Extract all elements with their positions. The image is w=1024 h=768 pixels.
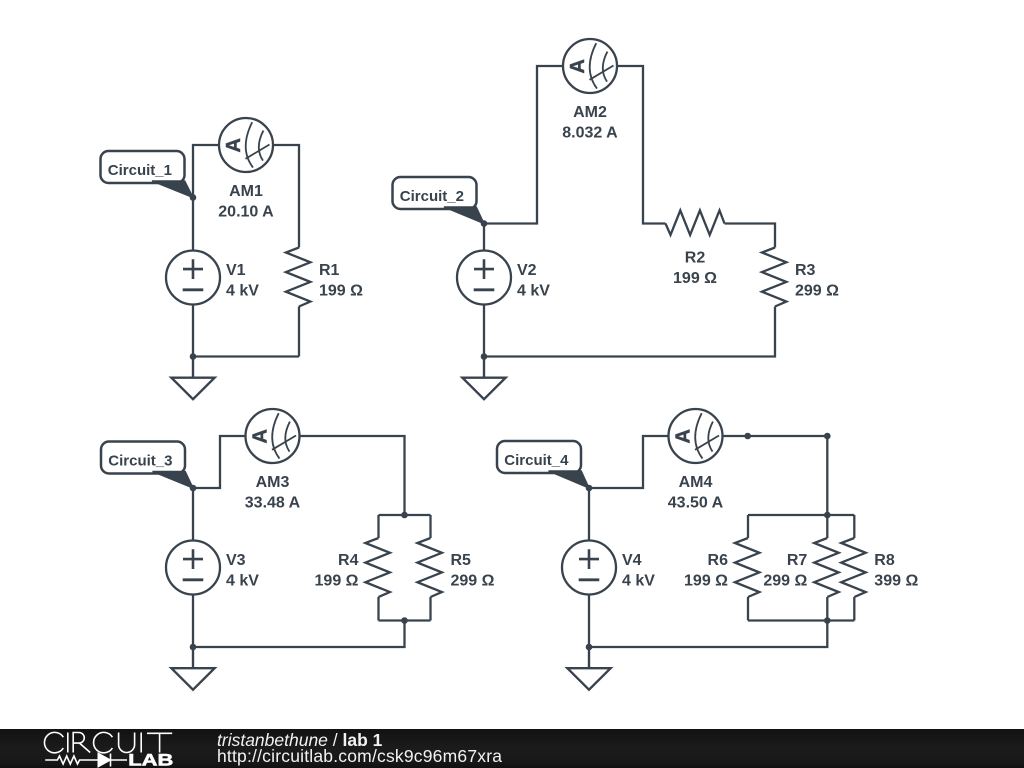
svg-text:199 Ω: 199 Ω xyxy=(684,573,728,590)
voltage source V4 xyxy=(562,541,616,595)
ammeter AM1 xyxy=(219,118,273,172)
node dot circuit 1 flag anchor xyxy=(190,194,197,201)
resistor R1 xyxy=(286,248,311,307)
svg-text:V1: V1 xyxy=(226,262,246,279)
letter T xyxy=(147,733,172,752)
flag Circuit_2 xyxy=(393,177,485,224)
footer url xyxy=(217,748,502,764)
wire R2 to R3 xyxy=(725,224,776,248)
svg-text:R1: R1 xyxy=(319,262,340,279)
ground circuit 4 xyxy=(567,647,610,690)
wire R6 leads xyxy=(747,515,749,621)
ammeter AM2 xyxy=(563,39,617,93)
letter C xyxy=(44,732,63,752)
resistor R6 xyxy=(735,538,760,597)
voltage source V2 xyxy=(457,251,511,305)
wire bottom bus of circuit 2 xyxy=(484,307,775,357)
flag Circuit_1 xyxy=(101,151,194,198)
letter U xyxy=(119,733,135,753)
resistor R2 xyxy=(666,210,725,235)
resistor R3 xyxy=(762,248,787,307)
svg-text:33.48 A: 33.48 A xyxy=(245,495,301,512)
ground circuit 3 xyxy=(171,647,214,690)
ammeter AM3 xyxy=(246,409,300,463)
svg-text:20.10 A: 20.10 A xyxy=(218,204,274,221)
node dot circuit 1 bottom junction xyxy=(190,353,197,360)
wire V2 top lead xyxy=(483,224,485,251)
svg-text:V2: V2 xyxy=(517,262,537,279)
wire V3 top lead xyxy=(192,488,194,541)
wire bottom run of circuit 4 xyxy=(589,621,827,648)
svg-text:R6: R6 xyxy=(708,552,729,569)
svg-text:AM2: AM2 xyxy=(573,104,607,121)
svg-text:Circuit_1: Circuit_1 xyxy=(108,162,172,179)
svg-text:R5: R5 xyxy=(451,552,472,569)
node dot circuit 2 flag anchor xyxy=(481,220,488,227)
svg-text:4 kV: 4 kV xyxy=(226,283,259,300)
svg-text:R7: R7 xyxy=(787,552,808,569)
svg-text:Circuit_4: Circuit_4 xyxy=(504,452,569,469)
svg-text:43.50 A: 43.50 A xyxy=(668,495,724,512)
svg-text:299 Ω: 299 Ω xyxy=(451,573,495,590)
wire V4 top lead xyxy=(588,488,590,541)
svg-text:399 Ω: 399 Ω xyxy=(874,573,918,590)
svg-text:AM3: AM3 xyxy=(256,474,290,491)
resistor R5 xyxy=(417,538,442,597)
flag Circuit_4 xyxy=(497,441,589,488)
wire R4 leads xyxy=(377,515,379,621)
node dot circuit 3 top parallel junction xyxy=(401,512,408,519)
svg-text:V4: V4 xyxy=(622,552,642,569)
ammeter AM4 xyxy=(669,409,723,463)
svg-text:R8: R8 xyxy=(874,552,895,569)
ground circuit 1 xyxy=(171,357,214,400)
svg-text:299 Ω: 299 Ω xyxy=(795,283,839,300)
flag Circuit_3 xyxy=(101,442,193,489)
ground circuit 2 xyxy=(462,357,505,400)
svg-text:R3: R3 xyxy=(795,262,816,279)
letter C xyxy=(94,732,113,752)
wire upper run of circuit 2 xyxy=(484,66,666,224)
wire V3 bottom lead xyxy=(192,595,194,648)
wire top bus of R4 R5 xyxy=(379,514,431,516)
footer title xyxy=(217,732,382,748)
letter I xyxy=(140,733,142,753)
letter I xyxy=(67,733,69,753)
wire right lower lead of R1 xyxy=(298,307,300,357)
node dot circuit 3 flag anchor xyxy=(190,485,197,492)
wire R8 leads xyxy=(853,515,855,621)
node dot circuit 4 ground junction xyxy=(586,644,593,651)
wire bottom run of circuit 3 xyxy=(193,621,405,648)
node dot circuit 4 corner junction xyxy=(824,433,831,440)
wire bottom bus of circuit 1 xyxy=(193,305,299,357)
voltage source V3 xyxy=(166,541,220,595)
wire upper run of circuit 3 xyxy=(193,436,405,515)
resistor R7 xyxy=(814,538,839,597)
svg-text:199 Ω: 199 Ω xyxy=(319,283,363,300)
svg-text:AM4: AM4 xyxy=(679,474,713,491)
resistor R8 xyxy=(841,538,866,597)
CircuitLab logo xyxy=(0,729,200,768)
svg-text:299 Ω: 299 Ω xyxy=(763,573,807,590)
svg-text:8.032 A: 8.032 A xyxy=(562,125,618,142)
node dot circuit 2 bottom junction xyxy=(481,353,488,360)
wire top bus of R6 R7 R8 xyxy=(748,514,854,516)
voltage source V1 xyxy=(166,251,220,305)
wire V2 bottom lead xyxy=(483,305,485,357)
wire upper run of circuit 4 xyxy=(589,436,827,515)
resistor diode glyph xyxy=(45,754,127,767)
svg-text:199 Ω: 199 Ω xyxy=(673,270,717,287)
svg-text:199 Ω: 199 Ω xyxy=(315,573,359,590)
wire R5 leads xyxy=(429,515,431,621)
svg-text:4 kV: 4 kV xyxy=(517,283,550,300)
svg-text:Circuit_3: Circuit_3 xyxy=(108,453,172,470)
svg-text:AM1: AM1 xyxy=(229,183,263,200)
svg-text:R2: R2 xyxy=(685,250,706,267)
wire bottom bus of R4 R5 xyxy=(379,619,431,621)
footer bar xyxy=(0,729,1024,768)
node dot circuit 4 bottom parallel junction xyxy=(824,617,831,624)
wire R7 leads xyxy=(826,515,828,621)
node dot circuit 4 wire junction xyxy=(744,433,751,440)
svg-text:R4: R4 xyxy=(338,552,359,569)
svg-text:4 kV: 4 kV xyxy=(226,573,259,590)
svg-text:LAB: LAB xyxy=(128,752,173,768)
wire left+top+right upper of circuit 1 xyxy=(193,145,299,251)
node dot circuit 3 bottom parallel junction xyxy=(401,617,408,624)
svg-text:4 kV: 4 kV xyxy=(622,573,655,590)
node dot circuit 4 top parallel junction xyxy=(824,512,831,519)
wire bottom bus of R6 R7 R8 xyxy=(748,619,854,621)
svg-text:Circuit_2: Circuit_2 xyxy=(400,188,464,205)
node dot circuit 3 ground junction xyxy=(190,644,197,651)
svg-text:V3: V3 xyxy=(226,552,246,569)
node dot circuit 4 flag anchor xyxy=(586,485,593,492)
letter R xyxy=(73,733,90,753)
resistor R4 xyxy=(365,538,390,597)
wire V4 bottom lead xyxy=(588,595,590,648)
